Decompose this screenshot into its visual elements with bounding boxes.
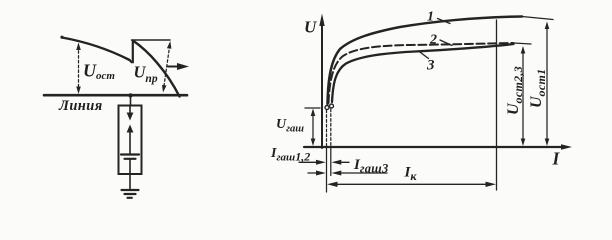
svg-text:U: U — [304, 18, 317, 37]
svg-text:1: 1 — [427, 10, 434, 25]
svg-text:2: 2 — [429, 33, 437, 48]
svg-text:3: 3 — [426, 58, 435, 74]
svg-text:I: I — [552, 149, 561, 169]
svg-text:Линия: Линия — [58, 98, 103, 114]
